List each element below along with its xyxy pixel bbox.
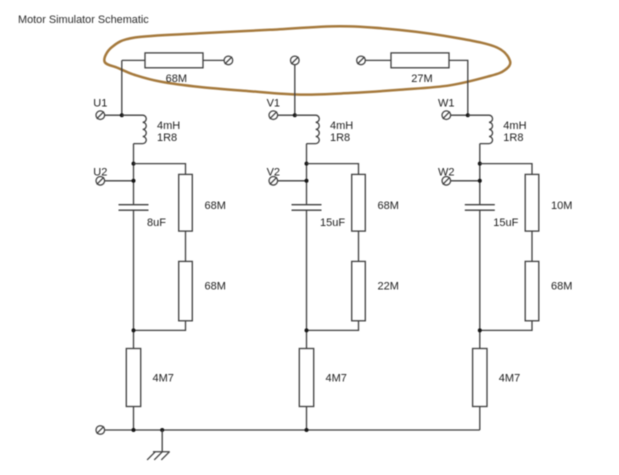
wire branch to divider top (phase V) — [307, 164, 359, 175]
wire from terminal to resistor 27M — [365, 59, 391, 61]
resistor 27M (top-right, rotor W) — [391, 53, 449, 68]
capacitor 15uF top plate (phase W) — [465, 204, 495, 206]
svg-text:68M: 68M — [378, 200, 399, 212]
svg-text:4M7: 4M7 — [326, 372, 347, 384]
capacitor 15uF top plate (phase V) — [292, 204, 322, 206]
resistor 10M (divider upper, phase W) — [525, 174, 539, 231]
wire divider bottom to column (phase W) — [480, 321, 532, 331]
wire branch to divider top (phase W) — [480, 164, 532, 175]
junction node W1 — [466, 113, 470, 117]
capacitor 15uF bottom plate (phase W) — [465, 209, 495, 211]
resistor 22M (divider lower, phase V) — [352, 261, 366, 320]
svg-text:Motor Simulator Schematic: Motor Simulator Schematic — [18, 14, 149, 26]
resistor 4M7 (phase U) — [126, 349, 140, 407]
junction node U2 — [132, 179, 136, 183]
svg-text:1R8: 1R8 — [330, 132, 350, 144]
ground stub wire — [161, 430, 163, 452]
wire terminal V2 to column — [278, 180, 307, 182]
terminal V1 — [269, 111, 278, 120]
svg-text:68M: 68M — [166, 73, 187, 85]
svg-text:W1: W1 — [438, 97, 455, 109]
wire W-column vertical (coil to cap plate) — [479, 144, 481, 205]
junction divider return (phase V) — [305, 328, 309, 332]
bottom common rail wire — [105, 429, 480, 431]
junction node V1 — [293, 113, 297, 117]
svg-text:27M: 27M — [411, 73, 432, 85]
terminal U2 — [96, 177, 105, 186]
junction U column to rail — [132, 428, 136, 432]
svg-text:4M7: 4M7 — [153, 372, 174, 384]
svg-text:1R8: 1R8 — [157, 132, 177, 144]
wire from U-column vertical to resistor 68M (top-left) — [122, 59, 145, 61]
capacitor 15uF bottom plate (phase V) — [292, 209, 322, 211]
terminal W2 — [442, 177, 451, 186]
resistor 4M7 (phase W) — [473, 349, 487, 407]
svg-text:U1: U1 — [93, 97, 107, 109]
junction divider return (phase U) — [132, 328, 136, 332]
wire between divider resistors (phase W) — [531, 231, 533, 261]
wire U-column vertical (cap plate to bottom rail) — [133, 210, 135, 430]
terminal W1 — [442, 111, 451, 120]
ground symbol — [147, 452, 170, 460]
svg-text:4mH: 4mH — [157, 120, 180, 132]
junction node U1 — [120, 113, 124, 117]
terminal (bottom-left common) — [96, 426, 105, 435]
wire terminal U2 to column — [105, 180, 134, 182]
svg-text:15uF: 15uF — [320, 217, 345, 229]
wire terminal V1 to junction — [278, 114, 295, 116]
highlight ellipse around rotor resistors — [104, 26, 510, 94]
wire divider bottom to column (phase V) — [307, 321, 359, 331]
svg-text:68M: 68M — [205, 281, 226, 293]
wire terminal U1 to junction — [105, 114, 122, 116]
svg-text:V1: V1 — [267, 97, 280, 109]
svg-text:68M: 68M — [551, 281, 572, 293]
inductor 4mH 1R8 (phase W) — [468, 115, 493, 143]
terminal V2 — [269, 177, 278, 186]
wire V-column vertical (coil to cap plate) — [306, 144, 308, 205]
inductor 4mH 1R8 (phase U) — [122, 115, 146, 143]
svg-text:8uF: 8uF — [147, 217, 166, 229]
junction branch to divider (phase V) — [305, 162, 309, 166]
terminal (top-right resistor left pin) — [357, 56, 366, 65]
wire from resistor 27M to W-column corner — [449, 60, 468, 115]
junction V column to rail — [305, 428, 309, 432]
capacitor 8uF bottom plate (phase U) — [119, 209, 149, 211]
resistor 68M (divider upper, phase U) — [179, 174, 193, 231]
wire divider bottom to column (phase U) — [134, 321, 186, 331]
junction branch to divider (phase W) — [478, 162, 482, 166]
svg-text:4mH: 4mH — [330, 120, 353, 132]
resistor 68M (divider lower, phase U) — [179, 261, 193, 320]
junction node W2 — [478, 179, 482, 183]
svg-text:68M: 68M — [205, 200, 226, 212]
junction branch to divider (phase U) — [132, 162, 136, 166]
resistor 68M (divider upper, phase V) — [352, 174, 366, 231]
inductor 4mH 1R8 (phase V) — [295, 115, 319, 143]
vertical wire from top-left resistor down to node U1 — [121, 60, 123, 115]
wire from top-left resistor to its terminal — [203, 59, 224, 61]
resistor 4M7 (phase V) — [299, 349, 313, 407]
junction ground stub to rail — [160, 428, 164, 432]
svg-text:1R8: 1R8 — [503, 132, 523, 144]
capacitor 8uF top plate (phase U) — [119, 204, 149, 206]
wire between divider resistors (phase V) — [358, 231, 360, 261]
svg-text:4M7: 4M7 — [499, 372, 520, 384]
resistor 68M (divider lower, phase W) — [525, 261, 539, 320]
wire V-column vertical (cap plate to bottom rail) — [306, 210, 308, 430]
wire branch to divider top (phase U) — [134, 164, 186, 175]
terminal (top-left resistor right pin) — [224, 56, 233, 65]
terminal U1 — [96, 111, 105, 120]
junction divider return (phase W) — [478, 328, 482, 332]
wire W-column vertical (cap plate to bottom rail) — [479, 210, 481, 430]
svg-text:22M: 22M — [378, 281, 399, 293]
junction node V2 — [305, 179, 309, 183]
wire from top terminal down to node V1 — [294, 65, 296, 116]
wire terminal W1 to junction — [451, 114, 468, 116]
terminal above node V1 — [291, 56, 300, 65]
wire terminal W2 to column — [451, 180, 480, 182]
resistor 68M (top-left, rotor U) — [145, 53, 203, 68]
svg-text:4mH: 4mH — [503, 120, 526, 132]
svg-text:15uF: 15uF — [493, 217, 518, 229]
wire U-column vertical (coil to cap plate) — [133, 144, 135, 205]
wire between divider resistors (phase U) — [185, 231, 187, 261]
svg-text:10M: 10M — [551, 200, 572, 212]
